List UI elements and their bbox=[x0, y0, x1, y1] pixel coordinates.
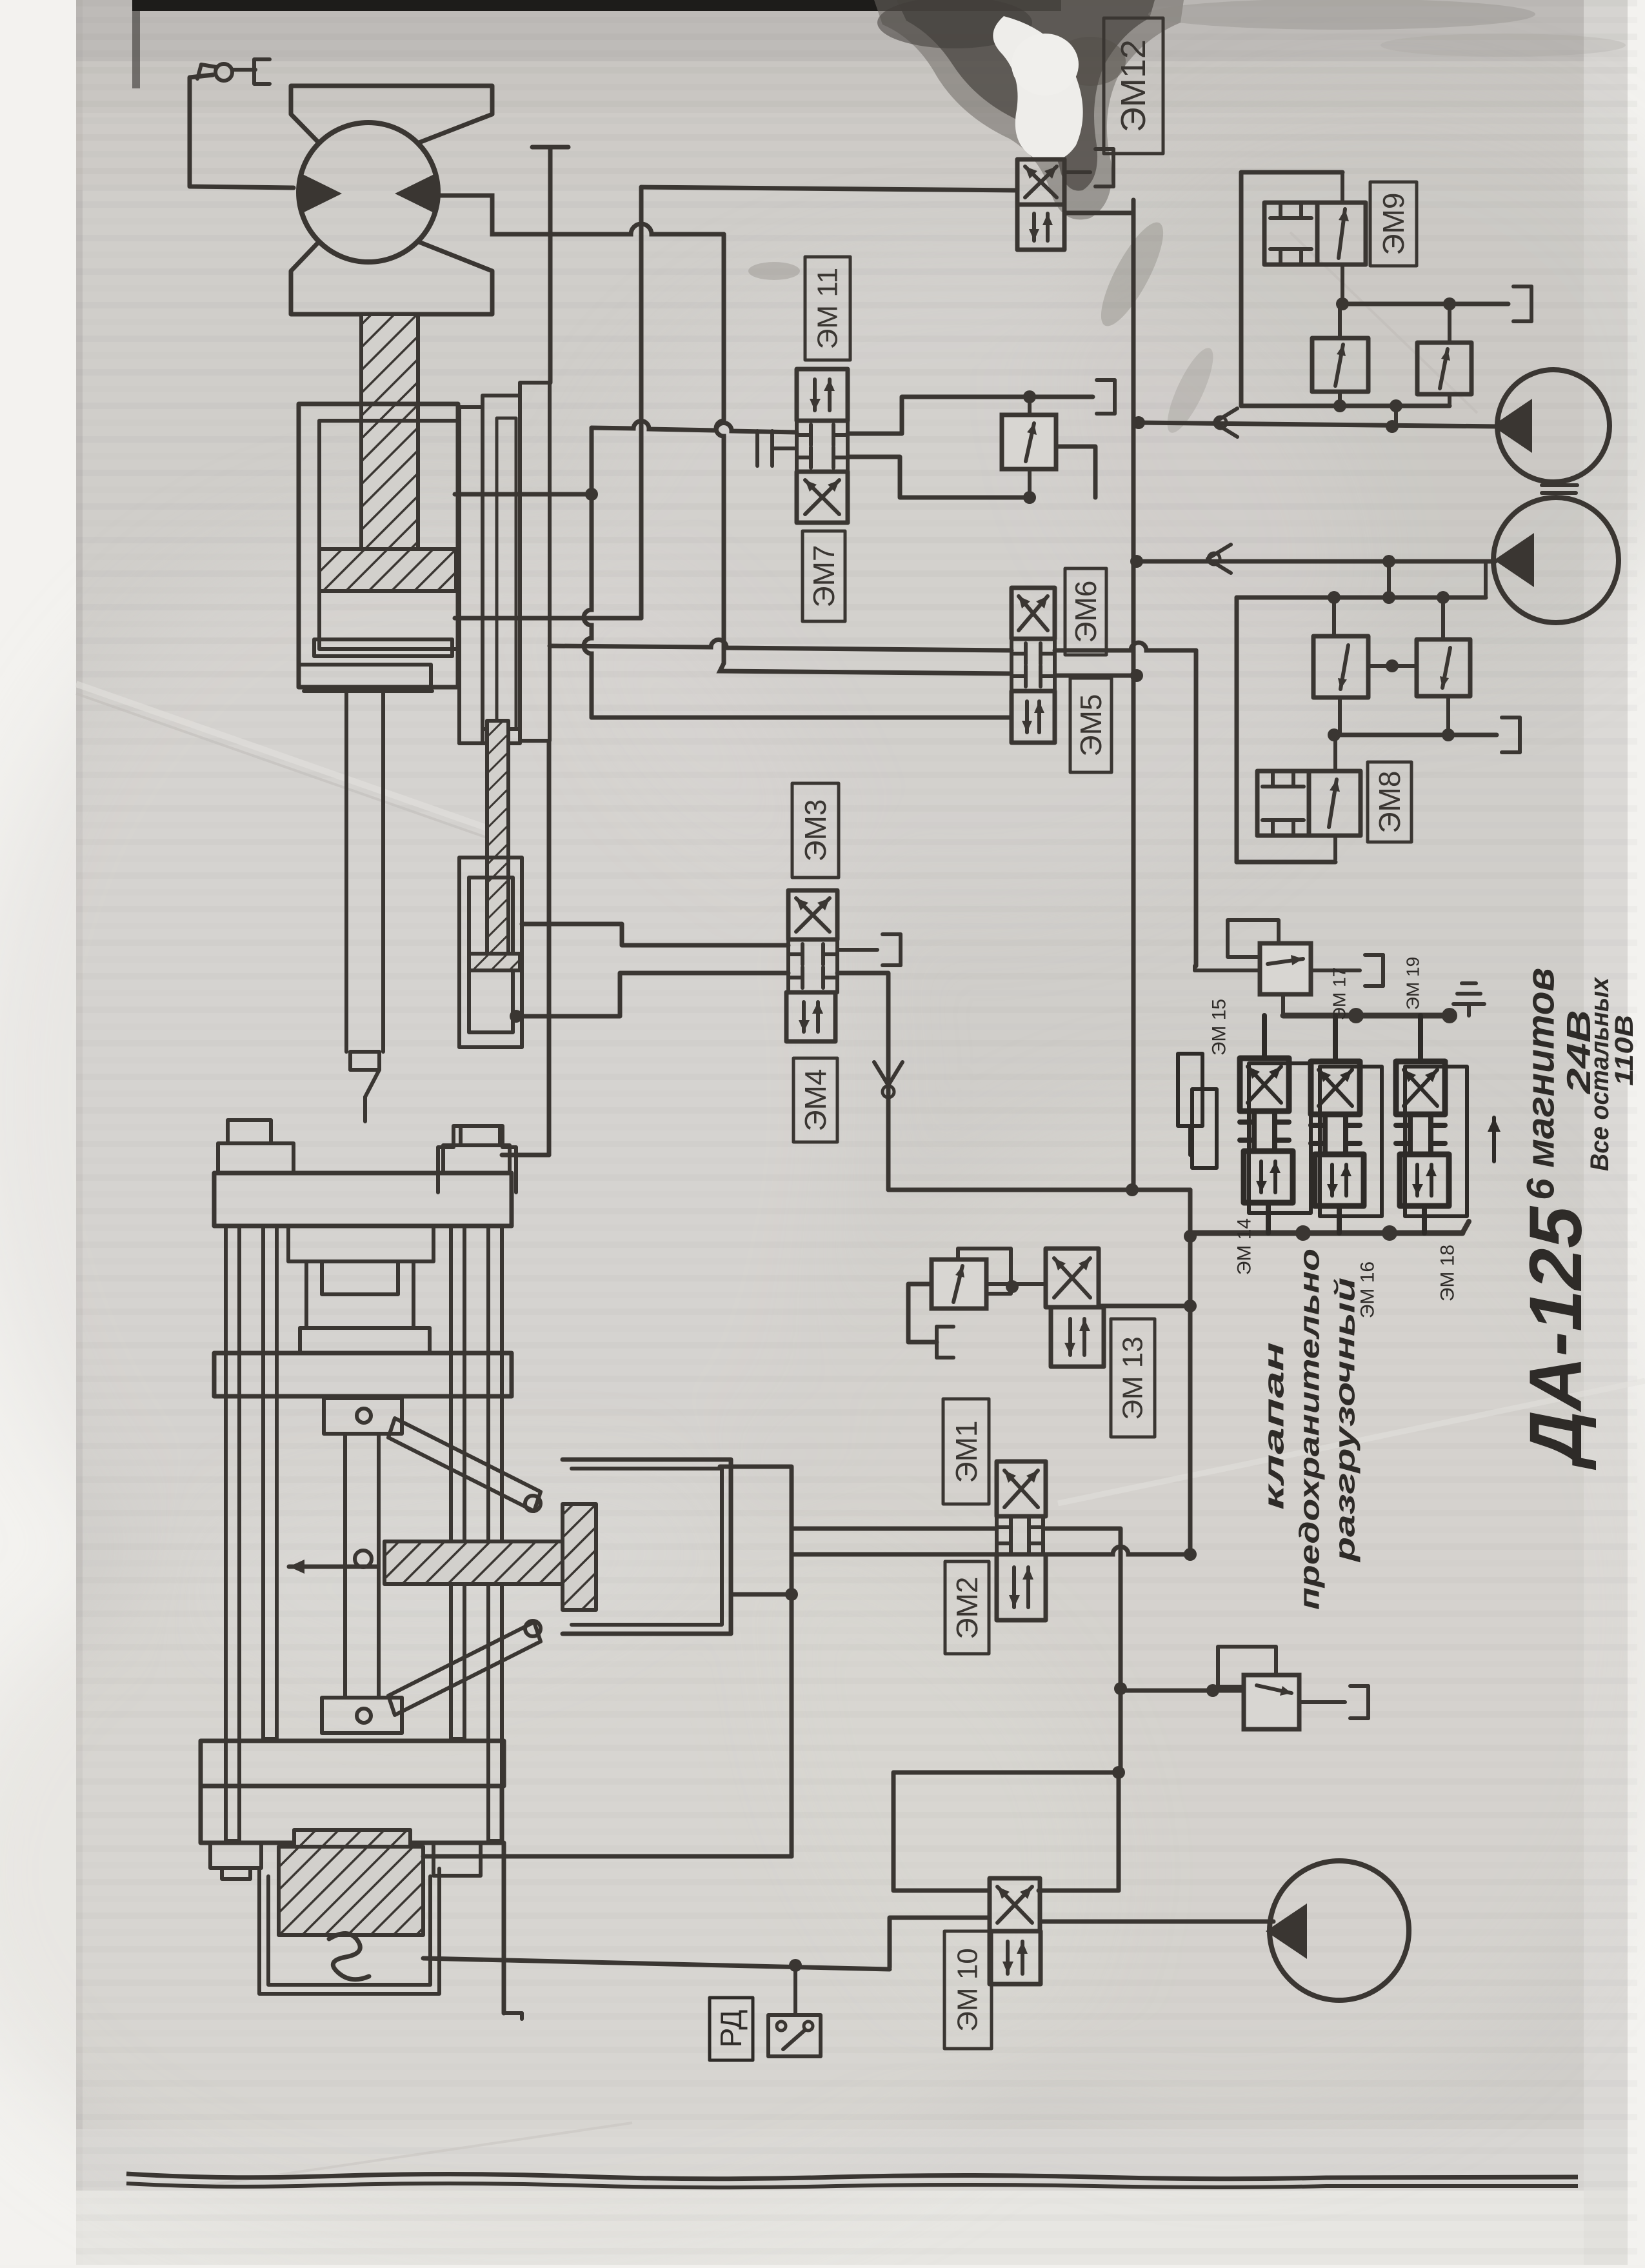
wire press to EM1 bbox=[720, 1467, 997, 1529]
svg-text:ЭМ12: ЭМ12 bbox=[1114, 39, 1153, 132]
tank EM3 right bbox=[837, 934, 901, 965]
wire Vleft bbox=[584, 428, 1012, 718]
relief valve group at EM7 bbox=[848, 380, 1115, 504]
press crosshead hatched bbox=[563, 1504, 596, 1610]
wire ejector bottom pipe bbox=[423, 1958, 890, 1972]
valve EM14 bbox=[1240, 1058, 1311, 1213]
svg-text:ЭМ 18: ЭМ 18 bbox=[1437, 1245, 1459, 1301]
svg-text:ЭМ2: ЭМ2 bbox=[950, 1577, 984, 1640]
check valve on EM4 riser bbox=[874, 1062, 902, 1098]
wire ejector top pipe bbox=[423, 1529, 792, 1856]
wire EM13 to riser bbox=[1099, 1304, 1190, 1309]
note vse ostalnye bbox=[1586, 976, 1614, 1171]
label EM1 bbox=[943, 1399, 989, 1504]
label EM7 bbox=[803, 531, 845, 621]
pump P1 bbox=[1492, 370, 1610, 482]
valve EM1 EM2 bbox=[997, 1461, 1046, 1620]
carriage cylinder lower C2 bbox=[459, 721, 522, 1047]
note 24V bbox=[1560, 1010, 1598, 1094]
wire to EM10 bbox=[890, 1918, 990, 1967]
valve EM3 EM4 bbox=[786, 890, 837, 1041]
relief assembly EM8 group bbox=[1237, 561, 1520, 862]
press arrow bbox=[289, 1560, 377, 1574]
label EM5 bbox=[1070, 678, 1112, 772]
injection cylinder C1 bbox=[299, 404, 458, 691]
reducing valve at EM13 bbox=[908, 1249, 1046, 1358]
plugged riser line bbox=[502, 147, 568, 1155]
check valve pump1 bbox=[1214, 408, 1237, 437]
carriage plates C2 bbox=[459, 383, 550, 743]
wire EM12 tank bbox=[1064, 149, 1113, 186]
press moving platen bbox=[214, 1353, 512, 1396]
wire bus corner riser bbox=[1184, 1190, 1197, 1557]
screw rod and nozzle bbox=[346, 691, 383, 1121]
bus dot pump1 bbox=[1132, 416, 1145, 429]
label EM17 bbox=[1330, 967, 1350, 1020]
wire from crank to motor bbox=[190, 75, 294, 188]
motor right arrow bbox=[395, 173, 437, 214]
svg-text:ЭМ6: ЭМ6 bbox=[1069, 581, 1102, 643]
note 6 magnitov bbox=[1519, 968, 1562, 1200]
wire H2 to EM6 bbox=[550, 639, 1012, 650]
note klapan bbox=[1259, 1249, 1361, 1610]
svg-text:ЭМ 17: ЭМ 17 bbox=[1330, 967, 1350, 1020]
valve EM18 bbox=[1396, 1061, 1467, 1216]
wire C to EM7 bbox=[592, 421, 797, 432]
valve EM6 EM5 bbox=[1012, 588, 1055, 743]
wire C2 to EM3 top bbox=[522, 924, 788, 945]
svg-text:ЭМ 10: ЭМ 10 bbox=[952, 1948, 984, 2031]
wire EM12 to bus bbox=[1064, 200, 1133, 213]
label EM9 bbox=[1370, 182, 1417, 266]
label EM6 bbox=[1065, 568, 1106, 655]
valve EM16 bbox=[1311, 1061, 1382, 1216]
hydraulic motor M bbox=[299, 123, 438, 262]
svg-text:ЭМ9: ЭМ9 bbox=[1377, 193, 1410, 256]
label EM8 bbox=[1368, 762, 1411, 842]
wire V2 down bbox=[716, 234, 1012, 674]
bus dot EM5 bbox=[1130, 669, 1143, 682]
svg-text:ЭМ4: ЭМ4 bbox=[799, 1069, 832, 1132]
pump coupling lines bbox=[1542, 485, 1577, 493]
wire EM10 loop bbox=[893, 1766, 1125, 1891]
relief assembly EM9 group bbox=[1241, 172, 1531, 427]
press main cylinder bbox=[563, 1460, 731, 1634]
actuator symbols EM15 bbox=[1178, 1054, 1217, 1168]
note DA-125 bbox=[1515, 1205, 1597, 1470]
motor lower collar bbox=[291, 241, 492, 314]
label EM10 bbox=[944, 1931, 992, 2049]
mount steps bbox=[438, 1126, 516, 1192]
svg-text:ДА-125: ДА-125 bbox=[1515, 1205, 1597, 1470]
wire motor left port bbox=[0, 0, 1, 1]
pump P2 bbox=[1493, 497, 1619, 623]
valve EM12 bbox=[1017, 159, 1064, 250]
check valve pump2 bbox=[1208, 545, 1231, 573]
wire EM2 right bbox=[1046, 1547, 1197, 1561]
svg-text:разгрузочный: разгрузочный bbox=[1330, 1278, 1361, 1563]
svg-text:ЭМ1: ЭМ1 bbox=[950, 1421, 983, 1483]
press tie bars bbox=[226, 1226, 502, 1841]
motor upper collar bbox=[291, 86, 492, 143]
svg-text:ЭМ 19: ЭМ 19 bbox=[1403, 957, 1423, 1010]
wire V1 motor line bbox=[455, 187, 641, 618]
wire pipe B from motor bbox=[438, 196, 724, 234]
label EM16t bbox=[1357, 1261, 1379, 1318]
wire EM4 to bus riser bbox=[837, 973, 1190, 1196]
wire EM5 right to bus bbox=[1055, 674, 1137, 678]
wire EM1 right bbox=[1046, 1529, 1127, 1772]
svg-text:ЭМ 15: ЭМ 15 bbox=[1209, 999, 1230, 1056]
wire pipe A to EM12 bbox=[641, 187, 1017, 190]
wire EM6 right to EM8 loop bbox=[1055, 643, 1196, 966]
svg-text:клапан: клапан bbox=[1259, 1342, 1290, 1510]
press column foot bbox=[504, 1843, 522, 2019]
svg-text:ЭМ5: ЭМ5 bbox=[1074, 694, 1108, 757]
solenoid bus top bbox=[1283, 983, 1484, 1023]
label EM15 bbox=[1209, 999, 1230, 1056]
wire to RD switch bbox=[793, 1965, 797, 2015]
press top platen bbox=[214, 1120, 512, 1226]
wire main bus bbox=[1132, 200, 1136, 1188]
svg-text:ЭМ8: ЭМ8 bbox=[1373, 771, 1406, 834]
motor left arrow bbox=[300, 173, 342, 214]
svg-text:РД: РД bbox=[714, 2010, 748, 2048]
wire pump2 pipe bbox=[1137, 555, 1495, 568]
wire press to EM2 bbox=[731, 1554, 997, 1601]
press ejector cylinder bbox=[259, 1830, 439, 1994]
label EM12 bbox=[1104, 18, 1163, 154]
bottom border bbox=[126, 2174, 1578, 2187]
label EM3 bbox=[792, 783, 839, 878]
tank EM7 left bbox=[757, 431, 797, 466]
relief valve low bbox=[1121, 1647, 1368, 1729]
svg-text:6 магнитов: 6 магнитов bbox=[1519, 968, 1562, 1200]
press mold block bbox=[288, 1226, 434, 1353]
pressure switch RD bbox=[768, 2015, 821, 2056]
relief valve above solenoid bus bbox=[1195, 920, 1383, 994]
press lower platen bbox=[201, 1741, 504, 1879]
bus dot pump2 bbox=[1130, 555, 1143, 568]
pump P3 bbox=[1266, 1861, 1409, 2000]
svg-text:ЭМ 13: ЭМ 13 bbox=[1117, 1336, 1149, 1420]
svg-text:ЭМ3: ЭМ3 bbox=[799, 799, 832, 862]
press toggle mechanism bbox=[322, 1398, 541, 1733]
note 110V bbox=[1610, 1015, 1639, 1086]
solenoid bus bottom bbox=[1190, 1203, 1469, 1241]
label EM2 bbox=[945, 1561, 989, 1654]
crank handle symbol bbox=[197, 59, 270, 84]
wires solenoid tops bbox=[1264, 1016, 1421, 1061]
svg-text:110В: 110В bbox=[1610, 1015, 1639, 1086]
label EM4 bbox=[793, 1058, 837, 1142]
label EM14t bbox=[1234, 1218, 1255, 1275]
label EM19 bbox=[1403, 957, 1423, 1010]
label EM13 bbox=[1111, 1319, 1155, 1437]
label EM11 bbox=[805, 257, 850, 360]
press ram hatched bbox=[384, 1541, 563, 1584]
wire pump1 pipe bbox=[1139, 420, 1500, 433]
valve EM10 bbox=[990, 1878, 1041, 1984]
svg-text:ЭМ7: ЭМ7 bbox=[807, 545, 841, 608]
note arrow bbox=[1488, 1118, 1500, 1161]
svg-text:предохранительно: предохранительно bbox=[1294, 1249, 1326, 1610]
valve EM13 bbox=[1046, 1249, 1104, 1367]
svg-text:ЭМ 14: ЭМ 14 bbox=[1234, 1218, 1255, 1275]
valve EM7 EM11 bbox=[797, 369, 848, 523]
label EM18t bbox=[1437, 1245, 1459, 1301]
hatched drive column bbox=[361, 314, 418, 549]
label RD bbox=[710, 1998, 753, 2060]
wire W1 cylinder top port bbox=[455, 488, 598, 501]
wire C2 to EM3 bottom bbox=[510, 973, 788, 1023]
svg-text:ЭМ 11: ЭМ 11 bbox=[812, 268, 844, 349]
wire EM10 to pump3 bbox=[1041, 1920, 1273, 1924]
